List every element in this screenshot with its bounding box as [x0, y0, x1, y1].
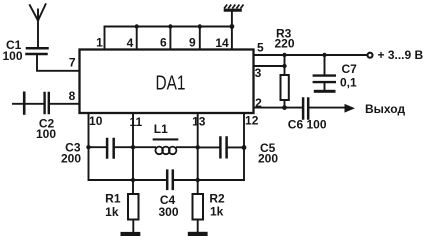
- svg-text:14: 14: [215, 36, 229, 50]
- node bus-9: [198, 24, 202, 28]
- wire C2 left lead: [13, 103, 44, 105]
- svg-text:200: 200: [258, 151, 278, 165]
- terminal +V circle: [368, 53, 373, 58]
- svg-text:12: 12: [245, 114, 259, 128]
- wire C5 leads: [198, 146, 244, 148]
- wire C6 to output arrow: [310, 107, 345, 109]
- wire pin 11 down: [132, 113, 134, 194]
- ground bar R1: [121, 232, 141, 236]
- svg-text:1: 1: [96, 36, 103, 50]
- capacitor C5: [220, 138, 226, 158]
- capacitor C1: [27, 48, 48, 54]
- wire pin 14: [231, 27, 233, 50]
- svg-text:13: 13: [192, 114, 206, 128]
- wire C2 to pin 8: [50, 103, 80, 105]
- capacitor C7 top lead: [324, 55, 326, 75]
- svg-text:1k: 1k: [105, 205, 119, 219]
- svg-text:L1: L1: [154, 122, 168, 136]
- node bus-6: [168, 24, 172, 28]
- svg-text:C6 100: C6 100: [288, 118, 327, 132]
- wire pin 9: [199, 27, 201, 50]
- capacitor C4: [167, 171, 173, 189]
- resistor R1: [128, 194, 139, 220]
- node pin12/C5: [242, 145, 247, 150]
- node pin11/C3: [131, 145, 135, 149]
- svg-text:DA1: DA1: [156, 73, 186, 95]
- inductor L1: [155, 147, 176, 155]
- svg-text:+ 3...9 В: + 3...9 В: [378, 48, 424, 62]
- wire pin 10 down and right: [89, 113, 134, 180]
- svg-text:8: 8: [69, 89, 76, 103]
- svg-text:7: 7: [69, 56, 76, 70]
- resistor R3: [281, 75, 289, 100]
- capacitor C6: [303, 99, 308, 119]
- svg-text:R1: R1: [105, 192, 121, 206]
- svg-text:0,1: 0,1: [340, 76, 357, 90]
- svg-text:100: 100: [3, 49, 23, 63]
- node bus-4: [135, 24, 139, 28]
- svg-text:3: 3: [255, 66, 262, 80]
- wire pin 5 to supply: [254, 54, 367, 56]
- svg-text:300: 300: [158, 205, 178, 219]
- svg-text:C7: C7: [342, 62, 358, 76]
- svg-text:1k: 1k: [210, 204, 224, 218]
- svg-text:9: 9: [189, 36, 196, 50]
- wire R2 to ground: [197, 220, 199, 232]
- wire C1 to pin 7: [37, 55, 80, 71]
- svg-text:4: 4: [127, 36, 134, 50]
- wire pin 12 down and left: [243, 113, 245, 180]
- node pin2/R3: [282, 105, 287, 110]
- capacitor C3: [107, 139, 114, 158]
- wire R3 bottom lead: [284, 100, 286, 108]
- svg-text:5: 5: [257, 40, 264, 54]
- wire top bus: [105, 26, 232, 28]
- resistor R2: [193, 194, 204, 220]
- node pin13/C4: [196, 178, 200, 182]
- svg-text:200: 200: [61, 152, 81, 166]
- wire pin 6: [169, 27, 171, 50]
- node pin5/C7: [322, 53, 326, 57]
- node pin3/R3: [282, 64, 286, 68]
- node pin13/L1: [196, 145, 200, 149]
- wire C7 bottom stub: [324, 83, 326, 90]
- svg-text:Выход: Выход: [365, 102, 405, 116]
- wire ground stub top: [231, 12, 233, 27]
- wire C3 leads: [89, 146, 134, 148]
- wire pin 3: [254, 65, 285, 67]
- wire R1 to ground: [132, 220, 134, 232]
- antenna WA1: [30, 4, 46, 46]
- op-amp U1: DA1 IC box: [80, 50, 254, 114]
- wire pin 13 down: [197, 113, 199, 194]
- ground (top, hatched): [224, 5, 244, 11]
- svg-text:220: 220: [275, 36, 295, 50]
- svg-text:6: 6: [160, 36, 167, 50]
- wire pin 1: [104, 27, 106, 50]
- node pin11/C4: [131, 178, 135, 182]
- capacitor C2: [45, 93, 49, 113]
- wire L1 leads: [133, 146, 198, 148]
- wire R3 top lead: [284, 55, 286, 75]
- capacitor C7: [314, 76, 335, 83]
- wire C4 leads / bottom rail: [133, 179, 244, 181]
- svg-text:100: 100: [36, 127, 56, 141]
- ground bar C7: [314, 90, 336, 93]
- wire pin 2 to C6: [254, 107, 302, 109]
- node pin10/C3: [86, 145, 90, 149]
- output arrow: [345, 104, 356, 113]
- svg-text:10: 10: [89, 114, 103, 128]
- L1 core bar: [154, 138, 178, 140]
- svg-text:2: 2: [255, 96, 262, 110]
- wire pin 4: [136, 27, 138, 50]
- node bus-gnd: [230, 24, 235, 29]
- ground bar R2: [188, 232, 208, 236]
- node pin5/R3: [282, 53, 286, 57]
- svg-text:11: 11: [129, 115, 142, 129]
- node: C2 input terminal bar: [23, 93, 26, 114]
